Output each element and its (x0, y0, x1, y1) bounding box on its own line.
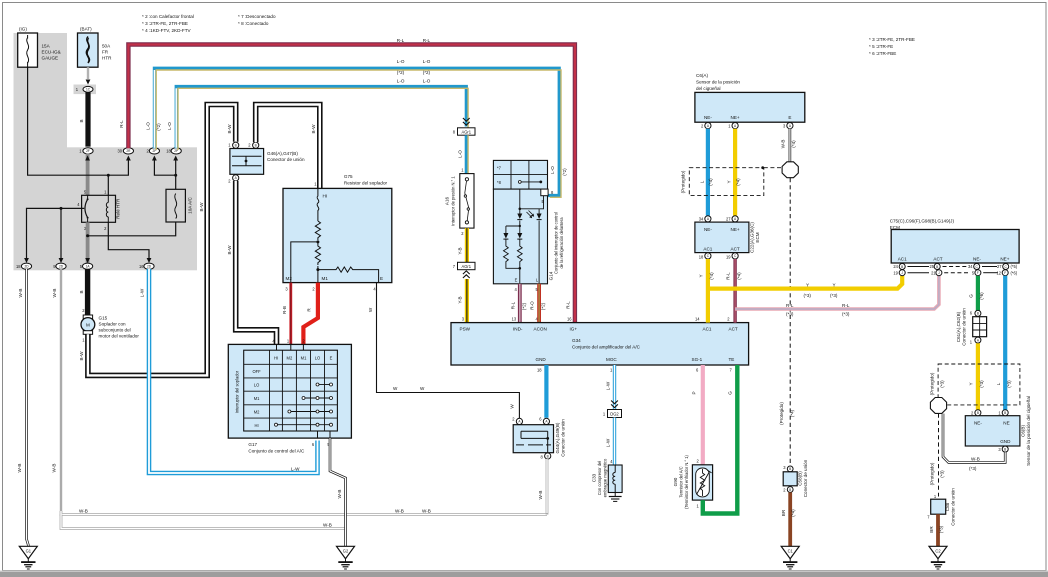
svg-text:B: B (1004, 447, 1006, 451)
svg-text:50A: 50A (102, 44, 111, 49)
svg-text:W: W (420, 386, 425, 391)
wire L-O(*2) 2(2P) rail to G14 pin8 (145, 59, 567, 197)
A/C thermistor G90 (673, 454, 713, 508)
svg-text:AGr1: AGr1 (462, 264, 472, 269)
relay HTR box (77, 190, 120, 231)
svg-text:Conjunto de control del A/C: Conjunto de control del A/C (248, 448, 305, 453)
svg-text:E: E (380, 276, 383, 281)
svg-text:B: B (79, 119, 84, 122)
wire R G75 M1 to G17 pin2 (303, 283, 318, 345)
svg-text:G34: G34 (572, 338, 581, 343)
note: option footnotes top-left (142, 14, 276, 33)
connector 9(2D) (53, 263, 66, 269)
connector 18(2D) (16, 263, 32, 269)
relay switch contact (85, 195, 89, 222)
wire R-L(*2) G14 E to G34 IND- (510, 284, 526, 323)
svg-text:C1: C1 (788, 548, 794, 553)
svg-text:M2: M2 (254, 410, 260, 415)
svg-text:(*3): (*3) (979, 380, 984, 388)
svg-text:(*4): (*4) (736, 178, 741, 186)
junction block gray background small (1C) (74, 85, 97, 95)
wire BR C58 to ground C1 (781, 492, 796, 546)
svg-text:27: 27 (726, 216, 731, 221)
svg-text:L: L (996, 382, 1001, 385)
svg-text:15A: 15A (42, 44, 51, 49)
wire junction to relay pin1 (107, 175, 109, 195)
svg-text:C6(B): C6(B) (1021, 425, 1026, 437)
svg-text:(*3): (*3) (940, 380, 945, 388)
svg-text:G46(A),G47(B): G46(A),G47(B) (267, 151, 298, 156)
svg-text:E: E (788, 115, 791, 120)
svg-text:G2: G2 (343, 548, 349, 553)
wire L G34 GND to G44 6(A) (544, 365, 548, 418)
G75 internal resistors (291, 188, 379, 282)
shield drain dashed wire from C6A shield to C58 (779, 178, 795, 464)
svg-text:L-W: L-W (605, 381, 610, 390)
junction node 9(2D) branch (60, 207, 63, 210)
svg-text:2R: 2R (126, 149, 131, 153)
svg-text:B-W: B-W (227, 124, 232, 134)
svg-text:B-W: B-W (227, 245, 232, 255)
front cooling control switch assembly G14 (493, 189, 547, 284)
svg-text:motor del ventilador: motor del ventilador (99, 334, 140, 339)
svg-text:M1: M1 (254, 396, 260, 401)
svg-text:C22(A),G36(C): C22(A),G36(C) (750, 222, 755, 253)
svg-text:M1: M1 (301, 356, 307, 361)
svg-text:2D: 2D (147, 265, 152, 269)
svg-text:C88: C88 (945, 502, 950, 511)
A/C control assembly G17 (228, 338, 351, 453)
svg-text:30: 30 (117, 149, 122, 154)
wire Y(*3) C75 19(J) branch to AC1 (708, 276, 902, 298)
junction node relay coil feed (107, 174, 110, 177)
wire L-W 16(2D) to G17 pin6 (140, 269, 318, 473)
svg-text:BR: BR (929, 526, 934, 533)
svg-text:NE+: NE+ (1000, 257, 1009, 262)
svg-text:OFF: OFF (253, 369, 262, 374)
svg-text:(*3): (*3) (786, 311, 794, 316)
svg-text:(*3): (*3) (804, 293, 812, 298)
svg-text:(*2): (*2) (562, 168, 567, 176)
wire W-B G17 pin5 to ground G2 (330, 438, 346, 546)
svg-text:Y: Y (699, 274, 704, 277)
svg-text:(*3): (*3) (940, 470, 945, 478)
svg-text:L-O: L-O (550, 166, 555, 174)
crankshaft position sensor C6(B) (965, 396, 1031, 466)
svg-text:PSW: PSW (460, 326, 471, 331)
svg-text:W-B: W-B (323, 522, 332, 527)
G44 pin 6(A) (539, 417, 549, 425)
wire W G75 E to G44 2(A) (368, 283, 519, 419)
svg-text:subconjunto del: subconjunto del (99, 328, 131, 333)
svg-text:B: B (255, 144, 257, 148)
wire 10A fuse top to 2P connectors (154, 157, 175, 189)
svg-text:W-B: W-B (422, 508, 431, 513)
connector 2(2P) (147, 148, 160, 154)
svg-text:G17: G17 (248, 442, 257, 447)
svg-text:GND: GND (1000, 439, 1011, 444)
svg-text:C33: C33 (592, 473, 597, 482)
svg-text:Soplador con: Soplador con (99, 322, 127, 327)
svg-text:1C: 1C (86, 88, 91, 92)
svg-text:W-B: W-B (52, 289, 57, 298)
svg-text:AC1: AC1 (703, 326, 712, 331)
wire L-O AGr1 to A16 pin1 (457, 135, 468, 173)
C6(A) pin 1(A) (728, 123, 738, 129)
C6(B) pin 1(B) (998, 410, 1008, 416)
wire Y-B A16 pin2 to AGr1 7 (457, 228, 467, 262)
svg-text:R-L: R-L (423, 38, 431, 43)
svg-text:34: 34 (699, 216, 704, 221)
svg-text:ACT: ACT (731, 247, 740, 252)
svg-text:* 3 :2TR-FE, 2TR-FBE: * 3 :2TR-FE, 2TR-FBE (869, 37, 915, 42)
svg-text:B-W: B-W (79, 351, 84, 361)
svg-text:HI: HI (274, 356, 278, 361)
svg-text:2F: 2F (86, 149, 90, 153)
C6(A) pin 2(A) (701, 123, 711, 129)
connector 30(2R) (117, 148, 133, 154)
svg-text:HTR: HTR (102, 56, 112, 61)
G46 pin 2(B) (248, 142, 259, 148)
svg-text:ACON: ACON (534, 326, 547, 331)
svg-text:Sensor de la posición: Sensor de la posición (696, 80, 740, 85)
svg-text:SG-1: SG-1 (692, 357, 703, 362)
junction connector G46(A),G47(B) (230, 149, 305, 175)
svg-text:(*3): (*3) (842, 311, 850, 316)
C22 pin 27(A) (726, 216, 738, 222)
svg-text:* 2 :con Calefactor frontal: * 2 :con Calefactor frontal (142, 14, 194, 19)
wire G C75 NE- to junction C61 (968, 276, 984, 311)
wire R-O(*2) G14 L to G34 ACON (530, 284, 546, 323)
svg-text:B: B (1004, 411, 1006, 415)
fuse 10A A/C (166, 189, 193, 222)
wire B-W motor loop to junction connector G46 pin 1(B) (79, 105, 236, 376)
svg-text:(*4): (*4) (790, 409, 795, 417)
svg-text:C61(A),C62(B): C61(A),C62(B) (956, 311, 961, 342)
shield joint circle lower (930, 398, 946, 414)
C75 pin row 19(J) 21(J) 5(F) 12(F)(*6) (893, 270, 1017, 276)
svg-text:(IG): (IG) (19, 27, 27, 32)
C6(B) pin 3(B) (998, 446, 1008, 452)
wire L-W G34 MGC to DG2 (605, 365, 618, 410)
svg-text:(*4): (*4) (709, 272, 714, 280)
svg-text:B: B (977, 411, 979, 415)
G17 switch matrix table (244, 350, 338, 431)
svg-text:Conector de unión: Conector de unión (267, 157, 305, 162)
svg-text:IND-: IND- (513, 326, 523, 331)
svg-text:L-O: L-O (167, 122, 172, 130)
svg-text:G44(A),G49(B): G44(A),G49(B) (555, 422, 560, 453)
svg-text:E: E (330, 356, 333, 361)
svg-text:L-W: L-W (140, 288, 145, 297)
svg-text:GAUGE: GAUGE (42, 56, 59, 61)
wire IG fuse drop to junction (28, 67, 129, 175)
A/C amplifier assembly G34 (451, 317, 749, 373)
svg-text:R-L: R-L (119, 120, 124, 128)
svg-text:B: B (235, 144, 237, 148)
shield dashed box around C6(A) wires (681, 166, 783, 195)
svg-text:Y-B: Y-B (457, 296, 462, 303)
svg-text:* 6 :2TR-FBE: * 6 :2TR-FBE (869, 51, 896, 56)
svg-text:M2: M2 (286, 276, 293, 281)
compressor case ground (609, 493, 622, 502)
svg-text:B: B (936, 265, 938, 269)
svg-text:(*4): (*4) (737, 272, 742, 280)
svg-text:(*3): (*3) (938, 525, 943, 533)
wire R-B G75 M2 to G17 pin1 (282, 283, 291, 345)
svg-text:W-B: W-B (971, 456, 980, 461)
svg-text:Sensor de la posición del cigü: Sensor de la posición del cigüeñal (1026, 396, 1031, 466)
svg-text:P: P (692, 391, 697, 394)
svg-text:L-W: L-W (605, 438, 610, 447)
ground C1 (781, 546, 799, 569)
svg-text:10A A/C: 10A A/C (188, 197, 193, 214)
svg-text:LO: LO (254, 383, 259, 388)
svg-text:(Termistor del enfriador N.° 1: (Termistor del enfriador N.° 1) (684, 454, 689, 508)
svg-text:G: G (728, 391, 733, 395)
svg-text:L-O: L-O (145, 122, 150, 130)
wire R-L(*3) C75 21(J) branch to ACT (735, 276, 939, 317)
connector 7 AGr1 (453, 262, 475, 278)
wire G G34 TE loop to thermistor (697, 365, 738, 514)
svg-text:LO: LO (315, 356, 320, 361)
wire B fusible to junction block (79, 92, 88, 146)
svg-text:Y: Y (727, 180, 732, 183)
svg-text:IG+: IG+ (570, 326, 578, 331)
svg-text:W-B: W-B (18, 289, 23, 298)
svg-text:ACT: ACT (729, 326, 738, 331)
wire W-B 18(2D) to ground G1 (17, 269, 28, 546)
svg-text:* 4 :1KD-FTV, 2KD-FTV: * 4 :1KD-FTV, 2KD-FTV (142, 28, 192, 33)
W-B ground bus lower (61, 515, 346, 529)
svg-text:ECM: ECM (755, 232, 760, 242)
svg-text:24: 24 (893, 264, 898, 269)
blower motor G15 (81, 315, 139, 343)
svg-text:Y-B: Y-B (457, 247, 462, 254)
svg-text:NE-: NE- (973, 257, 981, 262)
svg-text:(*2): (*2) (397, 70, 405, 75)
svg-text:(*3): (*3) (830, 293, 838, 298)
svg-text:AC1: AC1 (703, 247, 712, 252)
junction connector G44(A),G49(B) (513, 419, 565, 457)
svg-text:L-O: L-O (423, 78, 431, 83)
svg-text:TE: TE (729, 357, 735, 362)
wire L C75 NE+ to C6(B) NE (996, 276, 1012, 412)
G44 pin 8(B) (541, 453, 551, 459)
svg-text:18: 18 (537, 368, 542, 373)
svg-text:W-B: W-B (337, 490, 342, 499)
svg-text:19: 19 (726, 254, 731, 259)
note: option footnotes top-right (869, 37, 915, 56)
ground C2 (929, 546, 947, 569)
svg-text:R-L: R-L (726, 272, 731, 280)
compressor magnetic clutch C33 (592, 458, 623, 497)
wire Y C6(A) NE+ to C22 27(A) (733, 129, 737, 216)
ECM C22(A),G36(C) (695, 222, 760, 253)
wire BR C88 to ground C2 (929, 514, 944, 546)
svg-text:34: 34 (968, 264, 973, 269)
svg-text:2D: 2D (59, 265, 64, 269)
wire Y C61 to C6(B) NE- (969, 343, 985, 411)
svg-text:Conjunto del amplificador del: Conjunto del amplificador del A/C (572, 345, 641, 350)
svg-text:C2: C2 (935, 548, 941, 553)
connector 1(1C) (76, 86, 93, 92)
svg-text:(*4): (*4) (708, 178, 713, 186)
wire L C6(A) NE- to C22 34(A) (706, 129, 710, 216)
svg-text:A16: A16 (445, 196, 450, 205)
svg-text:Relé HTR: Relé HTR (116, 198, 121, 219)
svg-text:13: 13 (512, 317, 517, 322)
svg-text:FR: FR (102, 50, 109, 55)
svg-text:L-O: L-O (397, 78, 405, 83)
C22 pin 34(A) (699, 216, 711, 222)
svg-text:L-W: L-W (291, 467, 300, 472)
W-B ground bus upper (61, 508, 547, 514)
svg-text:de la refrigeración delantera: de la refrigeración delantera (559, 217, 564, 269)
svg-text:B: B (977, 312, 979, 316)
svg-text:W: W (510, 404, 515, 409)
svg-text:Termistor del A/C: Termistor del A/C (679, 466, 684, 497)
svg-text:ACT: ACT (933, 257, 942, 262)
svg-text:NE: NE (1003, 421, 1009, 426)
svg-text:R-L: R-L (842, 303, 850, 308)
pressure switch A16 (445, 174, 475, 236)
svg-text:Conector de unión: Conector de unión (951, 488, 956, 526)
svg-text:W-B: W-B (17, 464, 22, 473)
svg-text:Resistor del soplador: Resistor del soplador (344, 181, 388, 186)
svg-text:W: W (368, 307, 373, 312)
svg-text:HI: HI (255, 423, 259, 428)
svg-text:M2: M2 (287, 356, 293, 361)
svg-text:(*4): (*4) (791, 509, 796, 517)
svg-text:(*6): (*6) (1011, 271, 1018, 276)
svg-text:16: 16 (567, 317, 572, 322)
C22 pin 18(C) (699, 253, 711, 260)
connector DG2 (603, 410, 622, 418)
svg-text:NE+: NE+ (731, 227, 740, 232)
shield dashed box around C6(B) wires (929, 364, 1020, 405)
svg-text:B: B (789, 488, 791, 492)
ground G1 (19, 546, 37, 569)
svg-text:Interruptor del soplador: Interruptor del soplador (235, 370, 240, 413)
svg-text:W: W (393, 386, 398, 391)
svg-text:(*2): (*2) (423, 70, 431, 75)
junction connector C58(B) (783, 459, 808, 497)
svg-text:* 5 :2TR-FE: * 5 :2TR-FE (869, 44, 893, 49)
arrow into 30(2R) (126, 156, 131, 161)
svg-text:Con compresor del: Con compresor del (597, 461, 602, 496)
svg-text:L: L (700, 180, 705, 183)
wire R-L 30(2R) top rail to G34 IG+ (119, 38, 575, 322)
ground G2 (337, 546, 355, 569)
svg-text:(Protegido): (Protegido) (929, 372, 934, 395)
svg-text:(*2): (*2) (521, 302, 526, 310)
svg-text:R-L: R-L (510, 301, 515, 309)
svg-text:(*3): (*3) (969, 466, 977, 471)
svg-text:G15: G15 (99, 316, 108, 321)
G46 pin 2(A) (228, 175, 239, 184)
junction block gray background main (14, 147, 198, 270)
svg-text:12: 12 (996, 271, 1001, 276)
wire W-B G44 8(B) to ground bus (538, 459, 547, 514)
svg-text:B-W: B-W (311, 124, 316, 134)
svg-text:Interruptor de presión N.° 1: Interruptor de presión N.° 1 (451, 176, 456, 226)
svg-text:W-B: W-B (52, 464, 57, 473)
svg-text:* 3 :2TR-FE, 2TR-FBE: * 3 :2TR-FE, 2TR-FBE (142, 21, 188, 26)
svg-text:(Protegido): (Protegido) (779, 402, 784, 425)
wire L-W DG2 to compressor (605, 418, 614, 466)
svg-text:L-O: L-O (457, 150, 462, 158)
wire W-B 9(2D) down (52, 269, 62, 511)
connector 18(2P) (166, 148, 181, 154)
wire B 5(1A) to blower motor (79, 269, 87, 315)
svg-text:F: F (1004, 271, 1006, 275)
blower resistor G75 (283, 174, 392, 292)
svg-text:AGr1: AGr1 (462, 130, 472, 135)
svg-text:W-B: W-B (395, 508, 404, 513)
connector 8 AGr1 (453, 118, 475, 135)
C75 pin row 24(B) 25(B) 34(C) 27(C)(*5) (893, 264, 1017, 270)
wire relay pin4 to ground connectors (27, 208, 85, 261)
connector 1(2F) (79, 148, 93, 154)
wire P G34 SG-1 to thermistor G90 (692, 365, 703, 465)
svg-text:Conector de unión: Conector de unión (962, 308, 967, 346)
G14 pin 8 box (541, 189, 554, 196)
svg-text:G75: G75 (344, 174, 353, 179)
svg-text:W-B: W-B (79, 508, 88, 513)
svg-text:* 8 :Conectado: * 8 :Conectado (238, 21, 269, 26)
svg-text:(*5): (*5) (1011, 264, 1018, 269)
svg-text:NE-: NE- (704, 115, 712, 120)
junction block gray background column (14, 33, 68, 148)
crankshaft position sensor C6(A) (695, 73, 805, 122)
svg-text:E: E (515, 278, 518, 283)
svg-text:B: B (79, 290, 84, 293)
shield drain dashed wire to C88 (930, 414, 945, 499)
fuse 15A ECU-IG GAUGE (18, 27, 61, 68)
svg-text:(*4): (*4) (791, 140, 796, 148)
svg-text:2D: 2D (24, 265, 29, 269)
svg-text:B: B (901, 265, 903, 269)
fuse 50A FR HTR (78, 27, 113, 68)
svg-text:(*2): (*2) (156, 123, 161, 131)
C6(B) pin 2(B) (971, 410, 981, 416)
svg-text:14: 14 (695, 317, 700, 322)
shield joint circle (782, 162, 798, 178)
svg-text:* 7 :Desconectado: * 7 :Desconectado (238, 14, 276, 19)
svg-text:B-W: B-W (199, 202, 204, 212)
G14 internal circuit (503, 189, 543, 284)
svg-text:HI: HI (323, 194, 328, 199)
G44 pin 2(A) (512, 417, 522, 425)
svg-text:B: B (789, 467, 791, 471)
svg-text:G: G (968, 294, 973, 298)
svg-text:(*3): (*3) (1007, 380, 1012, 388)
svg-text:18: 18 (699, 254, 704, 259)
svg-text:(*2): (*2) (541, 302, 546, 310)
G46 pin 1(B) (228, 142, 239, 148)
wire B-W G46 2(A) to G17 pin4 (227, 181, 276, 344)
bottom gray band (0, 571, 1048, 572)
svg-text:GND: GND (536, 357, 547, 362)
junction connector C61(A),C62(B) (956, 308, 987, 346)
wire Y-B AGr1 to G34 PSW (457, 279, 467, 323)
JB thick wire relay pin3 to 5(1A) (85, 222, 90, 263)
svg-text:NE+: NE+ (731, 115, 740, 120)
svg-text:Conector de unión: Conector de unión (561, 419, 566, 457)
svg-text:B: B (542, 199, 545, 204)
svg-text:DG2: DG2 (610, 412, 619, 417)
